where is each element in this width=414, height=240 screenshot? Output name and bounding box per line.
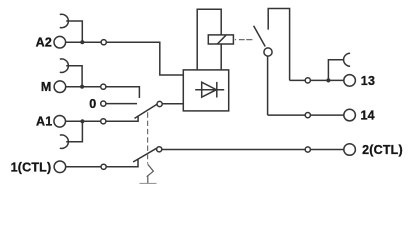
svg-text:A1: A1 bbox=[36, 115, 52, 129]
svg-text:1(CTL): 1(CTL) bbox=[11, 160, 52, 174]
svg-text:A2: A2 bbox=[36, 36, 52, 50]
svg-text:2(CTL): 2(CTL) bbox=[362, 143, 403, 157]
svg-text:M: M bbox=[41, 80, 52, 94]
svg-text:13: 13 bbox=[361, 74, 375, 88]
svg-text:14: 14 bbox=[361, 109, 375, 123]
svg-text:0: 0 bbox=[89, 97, 96, 111]
